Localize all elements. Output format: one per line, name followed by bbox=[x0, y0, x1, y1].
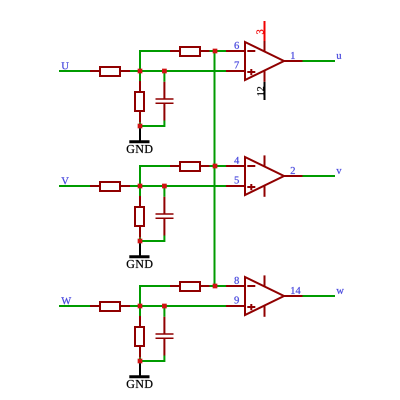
wire C bottom to junction bbox=[140, 356, 164, 362]
resistor RV2 feedback bbox=[170, 162, 210, 171]
wire output net u bbox=[303, 60, 336, 62]
wire to ground bbox=[139, 128, 141, 142]
op-amp U1 stage V bbox=[226, 155, 303, 196]
wire junction to inverting pin bbox=[210, 285, 227, 287]
net label U bbox=[62, 62, 69, 69]
power pin 12 wire (V-) bbox=[264, 82, 266, 100]
wire R3 bottom to junction bbox=[139, 358, 141, 361]
pin number 6 bbox=[235, 42, 239, 49]
op-amp U1 stage U bbox=[226, 40, 303, 81]
net label v bbox=[336, 169, 341, 174]
junction JWd (ground node) bbox=[138, 359, 143, 364]
net label W bbox=[61, 297, 71, 304]
wire to ground bbox=[139, 243, 141, 256]
junction JVb (node left) bbox=[138, 184, 143, 189]
junction JUd (ground node) bbox=[138, 124, 143, 129]
ground GNDU bbox=[127, 142, 153, 153]
resistor RW3 to ground bbox=[135, 316, 144, 358]
wire V input bbox=[59, 185, 90, 187]
wire feedback top leg bbox=[139, 285, 170, 287]
wire R3 bottom to junction bbox=[139, 123, 141, 126]
pin number 8 bbox=[234, 277, 238, 284]
pin number 12 bbox=[257, 87, 264, 96]
wire R3 bottom to junction bbox=[139, 238, 141, 241]
resistor RU2 feedback bbox=[170, 47, 210, 56]
junction JUb (node left) bbox=[138, 69, 143, 74]
wire R3 top lead net bbox=[139, 186, 141, 196]
junction JWb (node left) bbox=[138, 304, 143, 309]
wire R3 top lead net bbox=[139, 71, 141, 81]
capacitor CW1 bbox=[156, 317, 174, 356]
wire W input bbox=[59, 305, 90, 307]
junction JVd (ground node) bbox=[138, 239, 143, 244]
wire feedback up leg bbox=[139, 51, 141, 72]
pin number 2 bbox=[291, 167, 295, 174]
resistor RU3 to ground bbox=[135, 81, 144, 123]
wire node V main bbox=[130, 185, 226, 187]
net label u bbox=[336, 54, 341, 59]
wire feedback top leg bbox=[139, 165, 170, 167]
wire R3 top lead net bbox=[139, 306, 141, 316]
capacitor CU1 bbox=[156, 82, 174, 121]
junction JWa (feedback / bus) bbox=[213, 284, 218, 289]
wire C bottom to junction bbox=[140, 121, 164, 127]
resistor RV1 series input bbox=[90, 182, 131, 191]
resistor RW1 series input bbox=[90, 302, 131, 311]
wire feedback top leg bbox=[139, 50, 170, 52]
net label V bbox=[61, 177, 68, 184]
junction JWc (node right) bbox=[162, 304, 167, 309]
junction JVc (node right) bbox=[162, 184, 167, 189]
pin number 1 bbox=[291, 52, 295, 59]
junction JUc (node right) bbox=[162, 69, 167, 74]
capacitor CV1 bbox=[156, 197, 174, 236]
pin number 9 bbox=[234, 296, 238, 303]
pin number 7 bbox=[235, 62, 239, 69]
pin number 5 bbox=[235, 177, 239, 184]
wire C bottom to junction bbox=[140, 236, 164, 242]
net label w bbox=[336, 289, 344, 294]
wire node W main bbox=[130, 305, 226, 307]
wire feedback up leg bbox=[139, 286, 141, 307]
pin number 3 bbox=[256, 30, 263, 34]
op-amp U1 stage W bbox=[226, 275, 303, 316]
resistor RV3 to ground bbox=[135, 196, 144, 238]
pin number 4 bbox=[234, 157, 239, 164]
power pin 3 wire (V+) bbox=[264, 21, 266, 41]
wire to ground bbox=[139, 363, 141, 377]
wire node U main bbox=[130, 70, 226, 72]
wire C top lead net bbox=[163, 306, 165, 317]
resistor RW2 feedback bbox=[170, 282, 210, 291]
resistor RU1 series input bbox=[90, 67, 131, 76]
wire output net w bbox=[303, 295, 336, 297]
wire feedback up leg bbox=[139, 166, 141, 187]
wire C top lead net bbox=[163, 186, 165, 197]
wire C top lead net bbox=[163, 71, 165, 82]
wire junction to inverting pin bbox=[210, 165, 227, 167]
ground GNDV bbox=[127, 257, 153, 268]
wire vertical bus (feedback net, x=214.5) bbox=[214, 51, 216, 286]
wire output net v bbox=[303, 175, 336, 177]
junction JUa (feedback / bus) bbox=[213, 49, 218, 54]
pin number 14 bbox=[291, 287, 300, 294]
junction JVa (feedback / bus) bbox=[213, 164, 218, 169]
ground GNDW bbox=[127, 377, 153, 388]
wire junction to inverting pin bbox=[210, 50, 227, 52]
wire U input bbox=[59, 70, 90, 72]
